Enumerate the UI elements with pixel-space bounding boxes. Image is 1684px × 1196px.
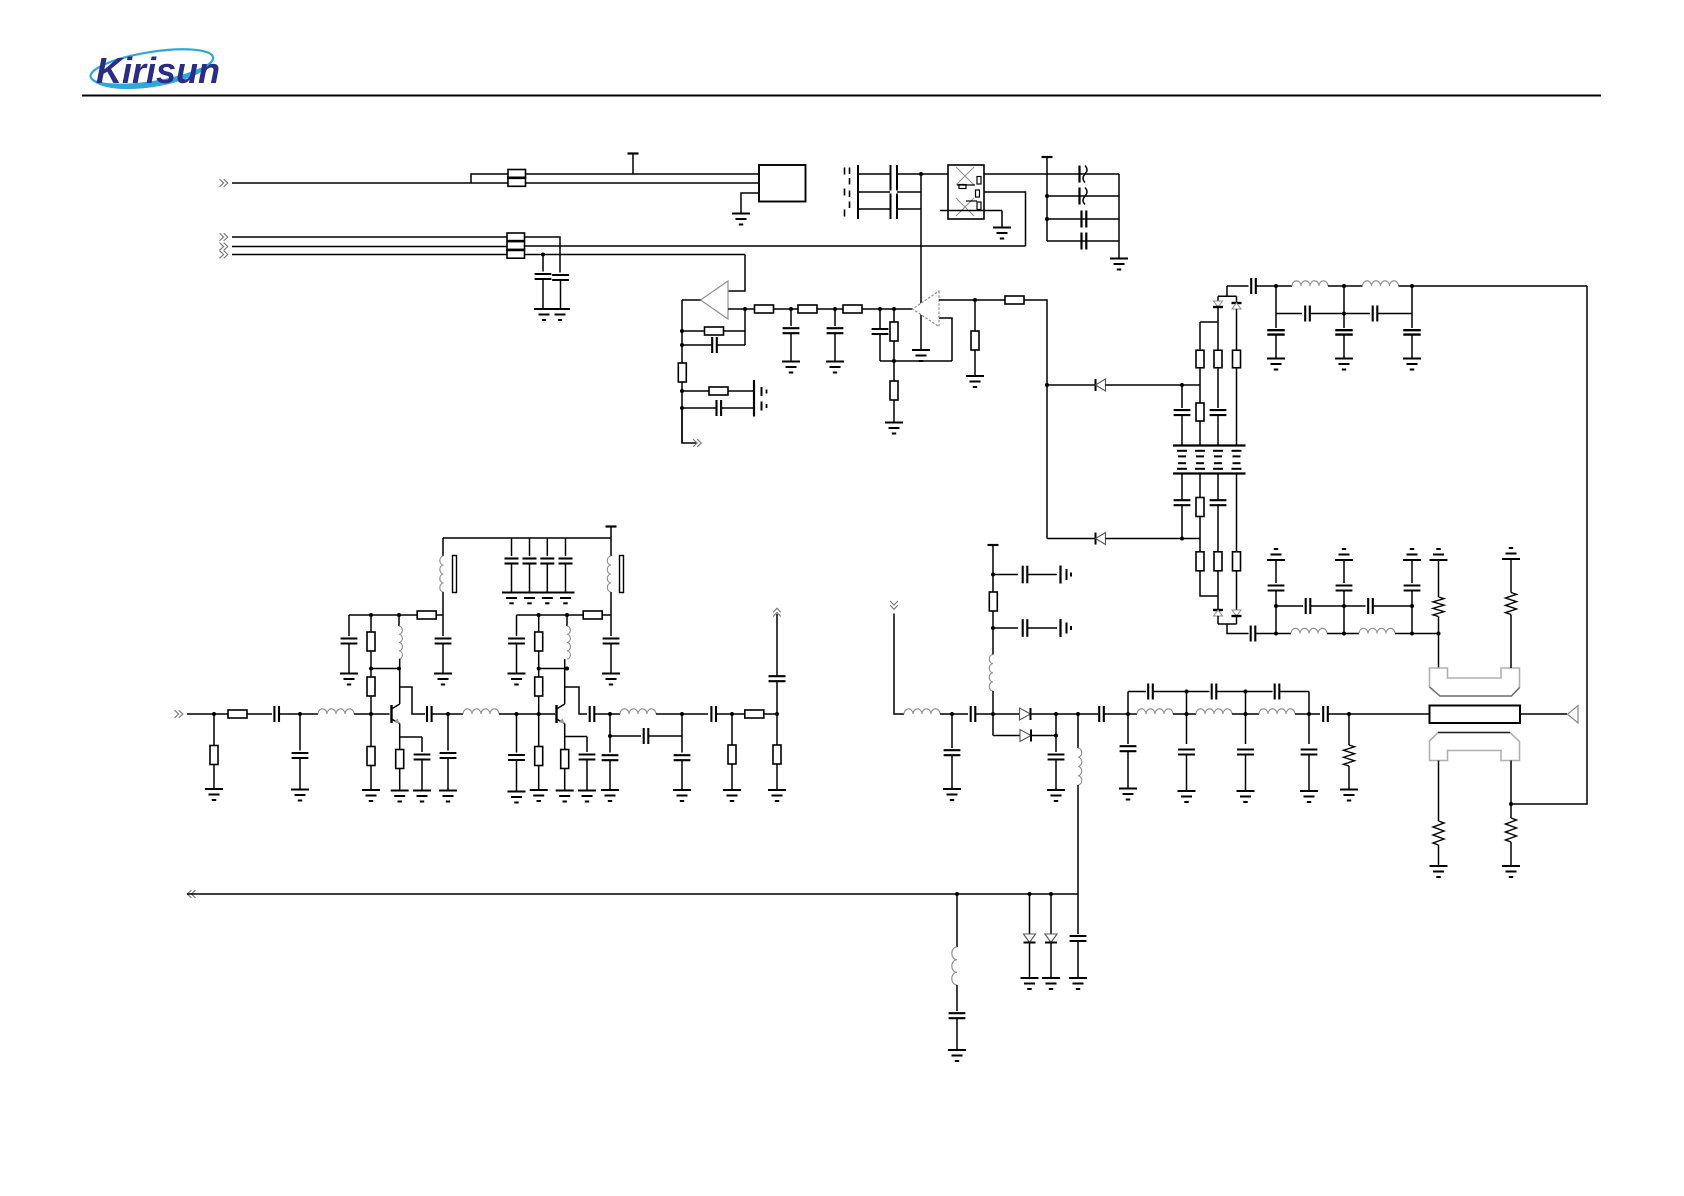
ground row4 bbox=[723, 789, 741, 791]
resistor R s1 upper bbox=[370, 615, 372, 632]
capacitor C col C bbox=[1217, 368, 1219, 408]
capacitor bank quad bottom bar bbox=[1173, 472, 1246, 474]
row trim1 bbox=[682, 390, 709, 392]
diode D rx1 bbox=[1020, 708, 1031, 720]
ground s1b bbox=[434, 673, 452, 675]
connector arrow row-in bbox=[179, 710, 183, 718]
diode D rx2 bbox=[1020, 730, 1031, 742]
ground dual caps bbox=[534, 308, 570, 310]
capacitor C rxf shunt1 bbox=[1275, 286, 1277, 314]
inductor L s1 choke bbox=[398, 615, 400, 626]
ground row3 bbox=[439, 790, 457, 792]
coupled jumper FB1 top bbox=[508, 170, 526, 178]
capacitor C s1a bbox=[348, 615, 350, 636]
ground cap bank bbox=[1118, 241, 1120, 259]
ground rx1 bbox=[943, 788, 961, 790]
Q2 emitter cap bbox=[565, 736, 587, 738]
capacitor C rx series2 bbox=[1098, 706, 1100, 722]
wire T1 to row bbox=[442, 592, 444, 615]
ground Q1 cap bbox=[413, 790, 431, 792]
supply pin T4 bbox=[988, 544, 999, 546]
row txf bbox=[1276, 633, 1291, 635]
Q1 collector link bbox=[400, 687, 425, 714]
rail U1 bottom bbox=[880, 360, 952, 362]
connector arrow down bbox=[890, 605, 898, 609]
row wire a bbox=[187, 713, 228, 715]
ground row2 bbox=[291, 789, 309, 791]
resistor R row series2 bbox=[745, 710, 764, 718]
RC ladder row bbox=[728, 308, 755, 310]
capacitor C s1b bbox=[442, 615, 444, 636]
resistor R col B lower bbox=[1196, 403, 1204, 421]
capacitor C row series3 bbox=[589, 706, 591, 722]
ground ladder2 bbox=[826, 361, 844, 363]
ground s2 in bbox=[508, 791, 526, 793]
inductor L rxf2 bbox=[1363, 281, 1399, 286]
capacitor C ladder3 bbox=[879, 309, 881, 329]
microstrip main line bbox=[1430, 706, 1521, 724]
resistor R match zig bbox=[1348, 714, 1350, 745]
wire to rail 1047 bbox=[1024, 300, 1047, 539]
supply pin T2 bbox=[1042, 156, 1053, 158]
filter F1 left bar bbox=[857, 165, 859, 219]
transistor Q1 bbox=[390, 705, 392, 723]
inductor L row1 bbox=[318, 709, 354, 714]
capacitor C bank row2 (polarized) bbox=[1078, 188, 1080, 205]
capacitor C line3 bbox=[542, 255, 544, 272]
capacitor C rxf in bbox=[1227, 285, 1249, 287]
ground s1a bbox=[340, 673, 358, 675]
connector arrow IN3 bbox=[224, 243, 228, 251]
wire U1 output bbox=[939, 299, 1005, 301]
feedback rail left bbox=[681, 300, 683, 443]
transformer T2 secondary bbox=[610, 538, 612, 556]
wire microstrip out bbox=[1520, 713, 1567, 715]
ground b3 bbox=[1069, 977, 1087, 979]
ground Q2 em bbox=[556, 790, 574, 792]
zener join wires bbox=[1218, 623, 1237, 625]
capacitor C rx series1 bbox=[970, 706, 972, 722]
filter F1 right bars bbox=[890, 165, 892, 191]
capacitor C row shunt bbox=[299, 714, 301, 751]
Q1 emitter R bbox=[399, 724, 401, 750]
resistor R cpl2 zig bbox=[1433, 821, 1444, 845]
antenna connector arrow bbox=[1568, 706, 1579, 724]
inductor L rx tap bbox=[1077, 714, 1079, 748]
jumper FB2 bbox=[507, 233, 525, 241]
resistor R in U1 bbox=[893, 309, 895, 323]
wire rxf to right rail bbox=[1412, 285, 1587, 287]
inductor L row3 bbox=[620, 709, 656, 714]
ground trap bbox=[948, 1049, 966, 1051]
resistor R row shunt3 bbox=[731, 714, 733, 745]
connector arrow IN2 bbox=[224, 233, 228, 241]
capacitor C rxf shunt2 bbox=[1343, 286, 1345, 314]
ground match bbox=[1340, 789, 1358, 791]
zener D z3 bbox=[1217, 606, 1219, 611]
exciter column bbox=[776, 682, 778, 715]
resistor R cpl3 zig bbox=[1506, 818, 1517, 842]
inductor L txf2 bbox=[1359, 628, 1395, 633]
capacitor C rx shunt1 bbox=[951, 714, 953, 748]
inductor L rxb bbox=[989, 655, 993, 692]
ground rxbf1 bbox=[1119, 788, 1137, 790]
connector arrow up bbox=[773, 608, 781, 612]
wire pair to box bbox=[526, 173, 760, 175]
ground rx2 bbox=[1047, 789, 1065, 791]
zener feed wires bbox=[1226, 286, 1228, 296]
ground crystal case bbox=[993, 227, 1011, 229]
row trim2 bbox=[682, 407, 716, 409]
bottom line bbox=[187, 893, 1078, 895]
ground rxbf3 bbox=[1237, 790, 1255, 792]
resistor R row shunt1 bbox=[213, 714, 215, 746]
capacitor C ladder2 bbox=[834, 309, 836, 326]
wire line3 bbox=[232, 254, 507, 256]
capacitor C s2a bbox=[516, 615, 518, 636]
rxbf upper row bbox=[1128, 691, 1146, 693]
bias link s2 bbox=[564, 659, 566, 704]
ground box bbox=[732, 213, 750, 215]
inductor L txf1 bbox=[1291, 628, 1327, 633]
resistor R col B mid bbox=[1199, 474, 1201, 499]
rx bias column bbox=[992, 545, 994, 655]
diode D b1 bbox=[1029, 894, 1031, 934]
capacitor C ladder1 bbox=[790, 309, 792, 326]
capacitor C bank row4 bbox=[1080, 233, 1082, 250]
filter F1 rows bbox=[858, 173, 890, 175]
ground b2 bbox=[1042, 977, 1060, 979]
cap+gndup txf3 bbox=[1403, 559, 1421, 561]
capacitor C bank row1 (polarized) bbox=[1078, 166, 1080, 183]
resistor R row series bbox=[228, 710, 247, 718]
inductor L rxbf3 bbox=[1259, 709, 1295, 714]
wire crystal out right bbox=[984, 192, 1026, 246]
ground rxf1 bbox=[1267, 358, 1285, 360]
svg-text:Kirisun: Kirisun bbox=[96, 50, 220, 91]
node vertical x921 bbox=[919, 172, 923, 176]
inductor L rxbf1 bbox=[1137, 709, 1173, 714]
resistor R s2 lower bbox=[535, 677, 543, 696]
coupler bottom right leg bbox=[1510, 761, 1512, 805]
wire crystal to cap bank bbox=[984, 173, 1047, 175]
resistor R cpl1 zig bbox=[1506, 593, 1517, 615]
crystal box Y1 bbox=[948, 165, 984, 219]
inductor L row2 bbox=[463, 709, 499, 714]
capacitor C line1 bbox=[552, 274, 569, 276]
resistor R col D upper bbox=[1233, 350, 1241, 368]
diode D sup2 bbox=[1095, 533, 1097, 545]
supply line bbox=[443, 537, 611, 539]
ground rxf3 bbox=[1403, 358, 1421, 360]
stage1 bias row bbox=[349, 614, 417, 616]
resistor R fb bbox=[682, 330, 704, 332]
capacitor C rxbf shunt4 bbox=[1308, 714, 1310, 744]
bridge row rxf bbox=[1276, 313, 1302, 315]
connector arrow OUT1 bbox=[682, 408, 696, 443]
zener D z4 bbox=[1236, 606, 1238, 611]
RX arrow drop bbox=[894, 614, 904, 715]
supply pin T1 bbox=[628, 152, 639, 154]
ground Q1 em bbox=[391, 790, 409, 792]
coupler top bracket bbox=[1430, 668, 1520, 696]
right rail down bbox=[1511, 286, 1587, 804]
coupled jumper FB1 bottom bbox=[508, 178, 526, 186]
Q2 collector link bbox=[565, 687, 587, 714]
capacitor C row series1 bbox=[273, 706, 275, 722]
ground row1 bbox=[205, 788, 223, 790]
wire U3 output bbox=[682, 299, 701, 301]
ground bridge2 bbox=[673, 789, 691, 791]
resistor R s1 lower bbox=[367, 677, 375, 696]
decoupling ground bus bbox=[502, 592, 575, 594]
rxf row bbox=[1276, 285, 1292, 287]
transformer T2 core bbox=[620, 556, 624, 593]
diode D sup1 bbox=[1095, 379, 1097, 391]
bridge cap row bbox=[609, 714, 611, 736]
wire IN1 bbox=[232, 182, 471, 184]
wire rx tap down bbox=[1077, 785, 1079, 894]
resistor R bias low s2 bbox=[538, 714, 540, 747]
cap+gndup txf2 bbox=[1335, 559, 1353, 561]
ground rxf2 bbox=[1335, 358, 1353, 360]
capacitor C bridge shunt1 bbox=[609, 736, 611, 753]
capacitor C rxbf shunt2 bbox=[1186, 714, 1188, 744]
op-amp U1 bbox=[913, 291, 940, 327]
resistor R col C low2 bbox=[1217, 539, 1219, 553]
coupled jumper FB3 top bbox=[507, 242, 525, 250]
ground bias U1 bbox=[885, 422, 903, 424]
connector arrow IN4 bbox=[224, 251, 228, 259]
capacitor C txf bbox=[1250, 626, 1252, 642]
Q1 emitter cap bbox=[400, 736, 422, 738]
Kirisun logo swoosh bbox=[88, 42, 216, 96]
capacitor bank quad top bar bbox=[1173, 444, 1246, 446]
feedback rail right bbox=[744, 309, 746, 345]
inductor L rxf1 bbox=[1292, 281, 1328, 286]
capacitor C rxbf shunt3 bbox=[1245, 714, 1247, 744]
resistor R col D low2 bbox=[1236, 539, 1238, 553]
resistor R col B upper bbox=[1199, 322, 1201, 351]
capacitor C col A bottom bbox=[1181, 474, 1183, 501]
header rule bbox=[82, 95, 1601, 97]
resistor R rxb bbox=[989, 592, 997, 611]
ground op-amp U1 bbox=[912, 349, 930, 351]
cap bank rails bbox=[1046, 174, 1048, 241]
capacitor C rxf shunt3 bbox=[1411, 286, 1413, 314]
inductor L trap bbox=[956, 894, 958, 947]
zener D z2 bbox=[1236, 296, 1238, 303]
capacitor C col A top bbox=[1181, 385, 1183, 408]
resistor R col C upper bbox=[1217, 322, 1219, 351]
capacitor C row shunt2 bbox=[447, 714, 449, 751]
ground b1 bbox=[1021, 977, 1039, 979]
capacitor C rxbf series bbox=[1322, 706, 1324, 722]
resistor R shunt out bbox=[974, 300, 976, 331]
wire bottom diode row bbox=[1047, 538, 1096, 540]
capacitor C rxb1 bbox=[993, 574, 1018, 576]
connector arrow bottom bbox=[187, 890, 191, 898]
capacitor C col C bottom bbox=[1217, 474, 1219, 501]
ground cpl3 bbox=[1502, 865, 1520, 867]
wires filter to node bbox=[897, 173, 921, 175]
capacitor C bank row3 bbox=[1080, 211, 1082, 228]
capacitor C s2 in shunt bbox=[516, 714, 518, 753]
capacitor C b3 bbox=[1077, 894, 1079, 934]
coupler top right leg bbox=[1510, 615, 1512, 669]
supply pin T3 bbox=[606, 525, 617, 527]
resistor R s2 upper bbox=[538, 615, 540, 632]
zener D z1 bbox=[1217, 296, 1219, 301]
link cols B-C bbox=[1200, 321, 1218, 323]
cap bank rows bbox=[1047, 173, 1119, 175]
resistor R rail bbox=[678, 363, 686, 382]
ground cpl2 bbox=[1430, 865, 1448, 867]
ground s2b bbox=[602, 673, 620, 675]
bridge row txf bbox=[1276, 605, 1303, 607]
wire line2 long bbox=[232, 246, 507, 248]
connector J trim1 bbox=[753, 380, 755, 417]
filter F1 dashed plate bbox=[844, 168, 846, 175]
capacitor C row series2 bbox=[426, 706, 428, 722]
capacitor C row series4 bbox=[710, 706, 712, 722]
wire box ground leg bbox=[741, 193, 759, 213]
stage2 bias row bbox=[517, 614, 584, 616]
transformer T1 core bbox=[453, 556, 457, 593]
resistor R bias low s1 bbox=[370, 714, 372, 747]
ground bridge1 bbox=[601, 789, 619, 791]
ground Q2 cap bbox=[578, 790, 596, 792]
capacitor C s2b bbox=[610, 615, 612, 636]
capacitor C fb bbox=[682, 344, 712, 346]
inductor L rx in bbox=[904, 709, 940, 714]
capacitor C trap bbox=[956, 985, 958, 1011]
transformer T1 primary bbox=[442, 538, 444, 556]
Q2 emitter R bbox=[564, 724, 566, 750]
wire line1 to cap bbox=[525, 237, 561, 273]
ground shunt out bbox=[966, 375, 984, 377]
rxbf link4 bbox=[1308, 692, 1310, 715]
ground rxbf4 bbox=[1300, 790, 1318, 792]
ground rxbf2 bbox=[1178, 790, 1196, 792]
ground s2a bbox=[508, 673, 526, 675]
capacitor C bridge shunt2 bbox=[681, 736, 683, 753]
op-amp U3 bbox=[701, 281, 729, 319]
terminator rxb1 bbox=[1059, 566, 1061, 584]
resistor R out U1 bbox=[1005, 296, 1024, 304]
rxbf link3 bbox=[1245, 692, 1247, 715]
coupler bottom left leg bbox=[1438, 761, 1440, 822]
rxbf link2 bbox=[1186, 692, 1188, 715]
wire top diode row bbox=[1047, 384, 1096, 386]
cap+gndup txf1 bbox=[1267, 559, 1285, 561]
ground bias s1 bbox=[362, 789, 380, 791]
wire col D bottom bbox=[1236, 474, 1238, 539]
resistor R exc shunt bbox=[776, 714, 778, 745]
resistor R bias U1 bbox=[893, 361, 895, 382]
diode D b2 bbox=[1050, 894, 1052, 934]
inductor L rxbf2 bbox=[1196, 709, 1232, 714]
resistor R col B low2 bbox=[1199, 539, 1201, 553]
capacitor bank quad dashes bbox=[1177, 450, 1187, 452]
wire to coupler top bbox=[1438, 634, 1440, 669]
capacitor C rxb2 bbox=[993, 627, 1018, 629]
rxbf link1 bbox=[1127, 692, 1129, 715]
connector arrow IN1 bbox=[224, 179, 228, 187]
terminator rxb2 bbox=[1059, 619, 1061, 637]
capacitor C rxbf shunt1 bbox=[1127, 714, 1129, 744]
transistor Q2 bbox=[555, 705, 557, 723]
ground exc bbox=[768, 789, 786, 791]
decoupling caps bank bbox=[511, 538, 513, 556]
coupler bottom bracket bbox=[1430, 733, 1520, 761]
diode D rx2 row bbox=[992, 714, 994, 736]
module box U2 bbox=[759, 165, 806, 202]
ground ladder1 bbox=[782, 361, 800, 363]
wire line1 bbox=[232, 236, 507, 238]
wire crystal case ground bbox=[940, 210, 1002, 212]
capacitor C rx shunt2 bbox=[1055, 714, 1057, 736]
wire line3 down to U3 input bbox=[728, 255, 745, 292]
wire step up bbox=[471, 174, 508, 183]
wire node to crystal box bbox=[921, 173, 948, 175]
resistor R txf zig bbox=[1430, 559, 1448, 561]
ground bias s2 bbox=[530, 789, 548, 791]
inductor L s2 choke bbox=[566, 615, 568, 626]
bias link s1 bbox=[399, 659, 401, 704]
coupled jumper FB3 bottom bbox=[507, 250, 525, 258]
